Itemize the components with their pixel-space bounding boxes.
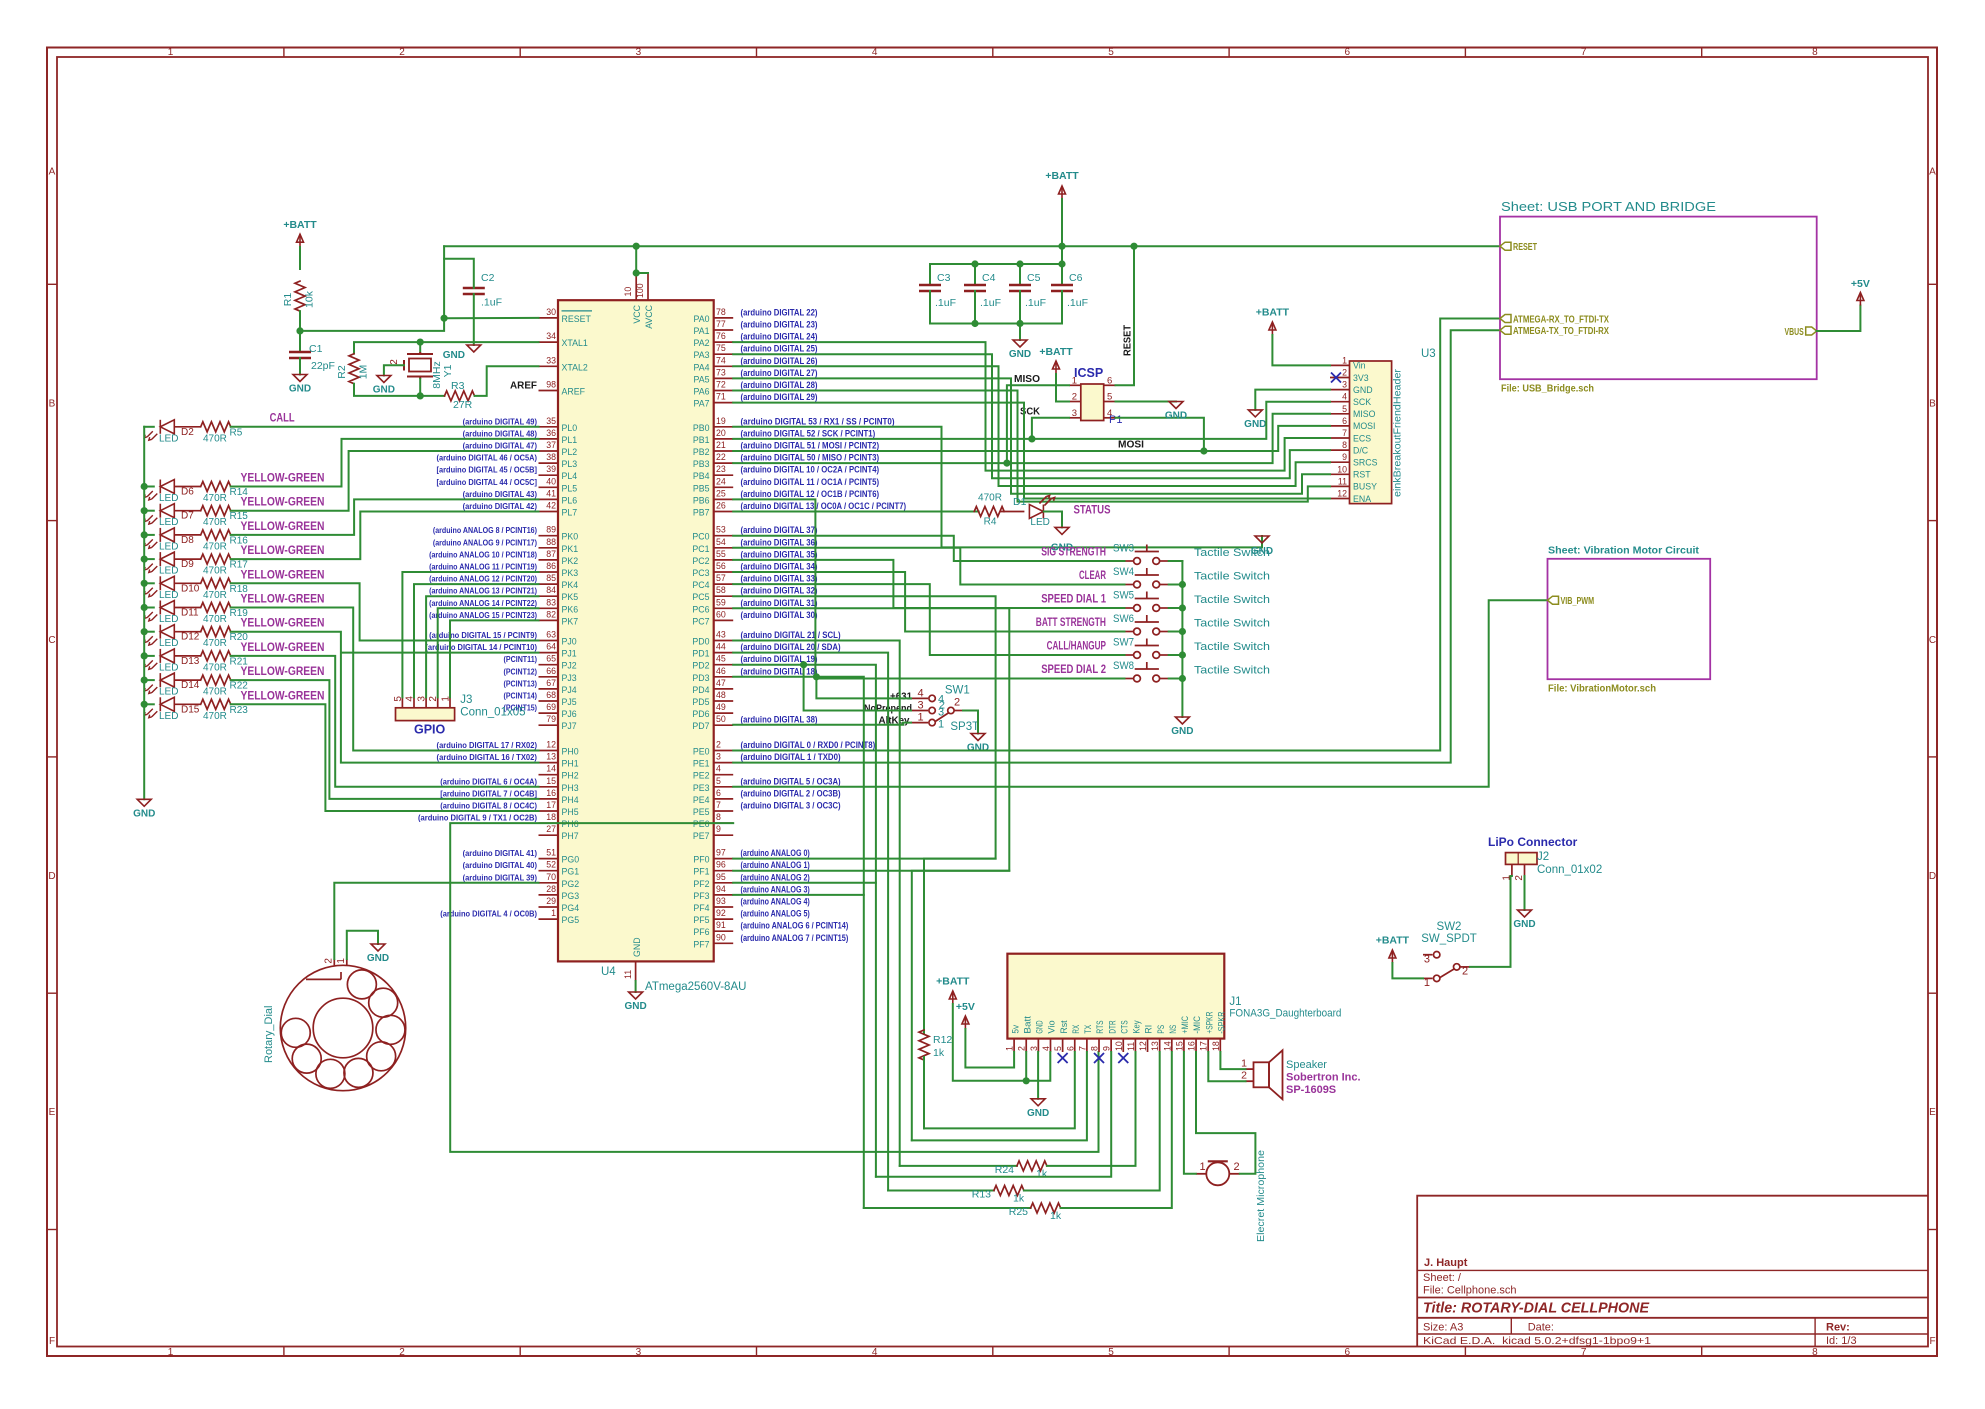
- svg-text:Vio: Vio: [1047, 1020, 1057, 1033]
- svg-text:D7: D7: [181, 511, 194, 522]
- svg-text:F: F: [49, 1336, 55, 1347]
- wire switch gnd collector: [1181, 561, 1183, 717]
- U4 pin 37 (PL2) left: [539, 450, 559, 452]
- svg-text:90: 90: [716, 932, 726, 942]
- svg-text:2: 2: [1072, 392, 1077, 403]
- svg-text:+BATT: +BATT: [283, 219, 317, 231]
- wire R12 to FONA RX row: [923, 1057, 925, 1128]
- svg-text:5: 5: [716, 776, 721, 786]
- svg-text:KiCad E.D.A. kicad 5.0.2+dfsg: KiCad E.D.A. kicad 5.0.2+dfsg1-1bpo9+1: [1423, 1335, 1651, 1347]
- svg-text:7: 7: [1342, 428, 1347, 438]
- U4 pin 2 (PE0) right: [714, 750, 734, 752]
- svg-text:(arduino DIGITAL 30): (arduino DIGITAL 30): [741, 610, 818, 620]
- border tick left: [47, 520, 57, 522]
- border tick right: [1928, 1229, 1937, 1231]
- svg-text:SP-1609S: SP-1609S: [1286, 1084, 1336, 1096]
- connector J2 body: [1506, 853, 1538, 865]
- svg-text:30: 30: [546, 307, 556, 317]
- svg-text:FONA3G_Daughterboard: FONA3G_Daughterboard: [1229, 1008, 1341, 1020]
- svg-text:Tactile Switch: Tactile Switch: [1194, 571, 1270, 583]
- svg-text:(arduino ANALOG 15 / PCINT23): (arduino ANALOG 15 / PCINT23): [429, 610, 537, 620]
- border tick bottom: [283, 1347, 285, 1357]
- sheet pin VBUS: [1806, 327, 1817, 335]
- U3 pin 6 stub: [1330, 425, 1350, 427]
- svg-text:PB0: PB0: [693, 423, 710, 433]
- svg-text:R23: R23: [230, 705, 249, 716]
- U4 pin 43 (PD0) right: [714, 640, 734, 642]
- wire +BATT to Batt pin: [953, 1004, 1026, 1081]
- border tick top: [1464, 48, 1466, 58]
- svg-text:PE7: PE7: [693, 831, 710, 841]
- svg-text:Date:: Date:: [1528, 1322, 1554, 1334]
- svg-text:PD4: PD4: [692, 685, 709, 695]
- J1 pin 8 stub: [1098, 1039, 1100, 1052]
- svg-text:4: 4: [716, 764, 721, 774]
- svg-text:1: 1: [1241, 1058, 1247, 1070]
- U4 pin 64 (PJ1) left: [539, 652, 559, 654]
- svg-text:ICSP: ICSP: [1074, 366, 1103, 380]
- switch SW8: [1125, 662, 1169, 682]
- U4 pin 41 (PL6) left: [539, 498, 559, 500]
- svg-text:33: 33: [546, 355, 556, 365]
- svg-text:PA2: PA2: [694, 338, 710, 348]
- svg-text:13: 13: [1150, 1041, 1160, 1051]
- LED D6: [144, 480, 174, 500]
- svg-text:YELLOW-GREEN: YELLOW-GREEN: [241, 666, 325, 678]
- svg-text:Tactile Switch: Tactile Switch: [1194, 594, 1270, 606]
- wire crystal bottom to R3 row: [419, 379, 421, 396]
- wire D14 to PH4: [231, 680, 539, 799]
- U4 pin 36 (PL1) left: [539, 438, 559, 440]
- U4 pin 55 (PC2) right: [714, 559, 734, 561]
- wire crystal top lead: [419, 342, 421, 352]
- wire reset to U4 pin30: [444, 317, 538, 319]
- svg-text:470R: 470R: [203, 638, 227, 649]
- svg-text:3: 3: [1029, 1046, 1039, 1051]
- P1 pin 4 stub right: [1104, 417, 1116, 419]
- svg-text:U3: U3: [1421, 348, 1436, 360]
- U4 pin 88 (PK1) left: [539, 547, 559, 549]
- junction collector node: [1179, 605, 1185, 611]
- svg-text:-MIC: -MIC: [1192, 1015, 1202, 1033]
- resistor R23: [201, 699, 231, 709]
- svg-text:57: 57: [716, 573, 726, 583]
- wire cap 3 top stub: [929, 264, 931, 285]
- resistor R1: [295, 281, 305, 311]
- svg-text:10: 10: [1337, 464, 1347, 474]
- U4 pin 69 (PJ6) left: [539, 712, 559, 714]
- title block divider rev: [1814, 1318, 1816, 1347]
- svg-text:89: 89: [546, 525, 556, 535]
- U4 pin 97 (PF0) right: [714, 858, 734, 860]
- svg-text:(arduino DIGITAL 17 / RX02): (arduino DIGITAL 17 / RX02): [437, 740, 538, 750]
- U4 pin 1 (PG5) left: [539, 918, 559, 920]
- svg-text:(arduino DIGITAL 23): (arduino DIGITAL 23): [741, 320, 818, 330]
- svg-text:RI: RI: [1144, 1025, 1154, 1034]
- svg-text:7: 7: [716, 800, 721, 810]
- U4 pin 52 (PG1) left: [539, 870, 559, 872]
- svg-text:PH1: PH1: [562, 759, 579, 769]
- ground symbol SW1: [971, 734, 985, 741]
- svg-text:PC2: PC2: [692, 556, 709, 566]
- wire cap C3 bottom stub: [929, 291, 931, 324]
- svg-text:470R: 470R: [203, 433, 227, 444]
- svg-text:PC4: PC4: [692, 580, 709, 590]
- U4 pin 67 (PJ4) left: [539, 688, 559, 690]
- wire LED-R D2: [174, 426, 200, 428]
- U4 pin 26 (PB7) right: [714, 511, 734, 513]
- U4 pin 34 (XTAL1) left: [539, 341, 559, 343]
- svg-text:3: 3: [716, 752, 721, 762]
- U3 pin 10 stub: [1330, 473, 1350, 475]
- wire LED rail stub D6: [144, 486, 154, 488]
- svg-text:CLEAR: CLEAR: [1079, 570, 1106, 582]
- wire SW6 to collector: [1169, 631, 1183, 633]
- svg-text:PH4: PH4: [562, 795, 579, 805]
- junction RESET net at +BATT: [1059, 243, 1065, 249]
- wire PD2 feed cont: [804, 665, 876, 1177]
- svg-text:SCK: SCK: [1353, 397, 1371, 407]
- svg-text:470R: 470R: [203, 590, 227, 601]
- svg-text:PE3: PE3: [693, 783, 710, 793]
- svg-text:40: 40: [546, 476, 556, 486]
- svg-text:MOSI: MOSI: [1118, 438, 1144, 450]
- title block line4: [1417, 1333, 1928, 1335]
- svg-text:C6: C6: [1069, 272, 1083, 284]
- wire LED-R D9: [174, 558, 200, 560]
- U3 pin 7 stub: [1330, 437, 1350, 439]
- svg-text:SW6: SW6: [1113, 613, 1134, 625]
- border tick left: [47, 756, 57, 758]
- LED D7: [144, 504, 174, 524]
- svg-text:LED: LED: [159, 493, 178, 504]
- svg-text:PE1: PE1: [693, 759, 710, 769]
- wire VCC feed: [635, 246, 637, 273]
- wire Batt to Vio: [1026, 1052, 1050, 1081]
- svg-text:YELLOW-GREEN: YELLOW-GREEN: [241, 473, 325, 485]
- svg-text:ECS: ECS: [1353, 433, 1371, 443]
- svg-text:96: 96: [716, 860, 726, 870]
- junction rail node: [141, 629, 147, 635]
- U4 pin 25 (PB6) right: [714, 498, 734, 500]
- svg-text:Sobertron Inc.: Sobertron Inc.: [1286, 1072, 1361, 1084]
- ground symbol LED rail: [137, 799, 151, 806]
- svg-text:(arduino ANALOG 1): (arduino ANALOG 1): [741, 860, 810, 870]
- svg-text:+BATT: +BATT: [936, 976, 970, 988]
- svg-text:75: 75: [716, 343, 726, 353]
- svg-text:LED: LED: [159, 638, 178, 649]
- svg-text:Conn_01x05: Conn_01x05: [460, 707, 525, 719]
- svg-text:XTAL2: XTAL2: [562, 362, 588, 372]
- svg-text:PL2: PL2: [562, 447, 578, 457]
- svg-text:LED: LED: [159, 433, 178, 444]
- svg-text:3: 3: [636, 47, 642, 58]
- svg-text:(arduino DIGITAL 25): (arduino DIGITAL 25): [741, 344, 818, 354]
- U4 pin 66 (PJ3) left: [539, 676, 559, 678]
- svg-text:79: 79: [546, 714, 556, 724]
- power +BATT (ICSP): [1053, 361, 1060, 374]
- svg-text:ATMEGA-RX_TO_FTDI-TX: ATMEGA-RX_TO_FTDI-TX: [1513, 314, 1609, 326]
- U4 pin 3 (PE1) right: [714, 762, 734, 764]
- resistor R13: [994, 1186, 1024, 1196]
- border tick left: [47, 992, 57, 994]
- J1 pin 15 stub: [1183, 1039, 1185, 1052]
- wire PK6 to J3 pin2: [438, 608, 539, 697]
- svg-text:47: 47: [716, 678, 726, 688]
- svg-text:(arduino ANALOG 12 / PCINT20): (arduino ANALOG 12 / PCINT20): [429, 574, 537, 584]
- power +BATT (U3): [1269, 322, 1276, 335]
- wire LED rail stub D9: [144, 558, 154, 560]
- capacitor C2: [463, 287, 485, 290]
- svg-text:STATUS: STATUS: [1074, 505, 1111, 517]
- svg-text:LED: LED: [1030, 517, 1049, 528]
- svg-text:(arduino DIGITAL 6 / OC4A): (arduino DIGITAL 6 / OC4A): [440, 776, 537, 786]
- svg-text:37: 37: [546, 440, 556, 450]
- svg-text:Elecret Microphone: Elecret Microphone: [1255, 1150, 1267, 1242]
- wire PE3 to VIB_PWM: [733, 600, 1547, 787]
- wire RESET net horizontal: [444, 245, 1500, 247]
- U4 pin 17 (PH5) left: [539, 810, 559, 812]
- wire +BATT to SW2 pin1: [1392, 963, 1423, 978]
- svg-text:GND: GND: [1244, 419, 1266, 430]
- svg-text:RX: RX: [1071, 1025, 1081, 1034]
- svg-text:(arduino DIGITAL 13 / OC0A / O: (arduino DIGITAL 13 / OC0A / OC1C / PCIN…: [741, 501, 907, 511]
- wire GND pin3 down: [1037, 1052, 1039, 1099]
- svg-text:R4: R4: [984, 517, 997, 528]
- svg-text:66: 66: [546, 666, 556, 676]
- svg-text:24: 24: [716, 476, 726, 486]
- svg-text:PC6: PC6: [692, 604, 709, 614]
- svg-text:Size: A3: Size: A3: [1423, 1322, 1463, 1334]
- svg-text:(arduino ANALOG 14 / PCINT22): (arduino ANALOG 14 / PCINT22): [429, 598, 537, 608]
- svg-text:PH2: PH2: [562, 771, 579, 781]
- svg-text:(arduino DIGITAL 0 / RXD0 / PC: (arduino DIGITAL 0 / RXD0 / PCINT8): [741, 740, 876, 750]
- U3 pin 4 stub: [1330, 401, 1350, 403]
- svg-text:64: 64: [546, 642, 556, 652]
- resistor R4: [974, 507, 1004, 517]
- J3 pin 3 stub: [425, 697, 427, 707]
- svg-text:+BATT: +BATT: [1045, 170, 1079, 182]
- svg-text:(arduino DIGITAL 42): (arduino DIGITAL 42): [463, 501, 538, 511]
- U4 pin 68 (PJ5) left: [539, 700, 559, 702]
- U4 pin 90 (PF7) right: [714, 942, 734, 944]
- wire +SPKR pin17 to speaker2: [1208, 1052, 1245, 1081]
- wire FONA RX pin6: [924, 1052, 1075, 1128]
- wire +BATT to U3 Vin: [1272, 335, 1330, 365]
- wire LED rail stub D11: [144, 607, 154, 609]
- U4 pin 63 (PJ0) left: [539, 640, 559, 642]
- wire dial pin2 to PG2: [334, 883, 538, 959]
- svg-text:PH5: PH5: [562, 807, 579, 817]
- svg-text:MISO: MISO: [1014, 373, 1040, 385]
- U4 pin 45 (PD2) right: [714, 664, 734, 666]
- U4 pin 77 (PA1) right: [714, 329, 734, 331]
- U4 pin 7 (PE5) right: [714, 810, 734, 812]
- svg-text:R24: R24: [995, 1164, 1014, 1176]
- speaker LS1 symbol: [1246, 1050, 1283, 1099]
- svg-text:18: 18: [546, 812, 556, 822]
- svg-text:13: 13: [546, 752, 556, 762]
- U4 pin 21 (PB2) right: [714, 450, 734, 452]
- svg-text:C: C: [48, 635, 55, 646]
- junction RESET net at ICSP vert: [1131, 243, 1137, 249]
- svg-text:PL1: PL1: [562, 435, 578, 445]
- svg-text:1: 1: [1005, 1046, 1015, 1051]
- wire R25 to NS pin14: [1061, 1052, 1172, 1208]
- svg-text:5: 5: [1108, 47, 1114, 58]
- svg-text:2: 2: [399, 47, 405, 58]
- wire PC0 to SW3: [733, 536, 1124, 561]
- capacitor C6: [1051, 284, 1073, 287]
- svg-text:PE2: PE2: [693, 771, 710, 781]
- svg-text:(arduino DIGITAL 53 / RX1 / SS: (arduino DIGITAL 53 / RX1 / SS / PCINT0): [741, 416, 895, 426]
- svg-text:PL5: PL5: [562, 483, 578, 493]
- wire PJ1 stub wire: [342, 652, 538, 654]
- svg-text:(arduino ANALOG 9 / PCINT17): (arduino ANALOG 9 / PCINT17): [433, 537, 537, 547]
- svg-text:U4: U4: [601, 966, 616, 978]
- svg-text:PG3: PG3: [562, 891, 580, 901]
- svg-text:+5V: +5V: [956, 1001, 975, 1013]
- junction PD2 branch: [801, 662, 807, 668]
- svg-text:7: 7: [1077, 1046, 1087, 1051]
- U4 pin 82 (PK7) left: [539, 619, 559, 621]
- svg-text:36: 36: [546, 428, 556, 438]
- svg-text:2: 2: [1017, 1046, 1027, 1051]
- svg-text:(PCINT14): (PCINT14): [504, 691, 538, 701]
- svg-text:91: 91: [716, 920, 726, 930]
- wire PC2 to SW5: [733, 560, 1124, 608]
- LED D14: [144, 673, 174, 693]
- junction rail node: [141, 677, 147, 683]
- junction collector node: [1179, 652, 1185, 658]
- border tick top: [1701, 48, 1703, 58]
- ground symbol Y1: [377, 376, 391, 383]
- crystal Y1: [404, 352, 433, 379]
- U4 pin 100 (AVCC) stub: [647, 273, 649, 300]
- wire cap C4 bottom stub: [974, 291, 976, 324]
- wire PE0 to USB RX: [733, 319, 1500, 751]
- svg-text:15: 15: [1174, 1041, 1184, 1051]
- U3 pin 5 stub: [1330, 413, 1350, 415]
- svg-text:PA3: PA3: [694, 350, 710, 360]
- U4 pin 84 (PK5) left: [539, 595, 559, 597]
- svg-text:PL0: PL0: [562, 423, 578, 433]
- svg-text:PA7: PA7: [694, 399, 710, 409]
- U4 pin 85 (PK4) left: [539, 583, 559, 585]
- svg-text:einkBreakoutFriendHeader: einkBreakoutFriendHeader: [1392, 368, 1404, 497]
- svg-text:PD1: PD1: [692, 649, 709, 659]
- svg-text:File: USB_Bridge.sch: File: USB_Bridge.sch: [1501, 384, 1594, 395]
- svg-text:4: 4: [1342, 392, 1347, 402]
- svg-text:67: 67: [546, 678, 556, 688]
- resistor R17: [201, 554, 231, 564]
- svg-text:1: 1: [551, 908, 556, 918]
- wire R3 to XTAL2: [475, 366, 539, 396]
- P1 pin 6 stub right: [1104, 384, 1116, 386]
- wire SW2 pin2 to J2 pin1: [1470, 876, 1512, 967]
- svg-text:(arduino DIGITAL 5 / OC3A): (arduino DIGITAL 5 / OC3A): [741, 776, 841, 786]
- svg-text:SPEED DIAL 2: SPEED DIAL 2: [1041, 664, 1106, 676]
- junction rail node: [141, 580, 147, 586]
- svg-text:B: B: [49, 399, 56, 410]
- svg-text:YELLOW-GREEN: YELLOW-GREEN: [241, 545, 325, 557]
- svg-text:GND: GND: [373, 385, 395, 396]
- border tick bottom: [519, 1347, 521, 1357]
- svg-text:(arduino DIGITAL 40): (arduino DIGITAL 40): [463, 860, 538, 870]
- svg-text:1: 1: [168, 47, 174, 58]
- U4 pin 74 (PA4) right: [714, 365, 734, 367]
- svg-text:470R: 470R: [203, 493, 227, 504]
- wire +BATT to ICSP pin2: [1056, 374, 1069, 402]
- svg-text:[arduino DIGITAL 44 / OC5C]: [arduino DIGITAL 44 / OC5C]: [437, 477, 538, 487]
- svg-text:(arduino DIGITAL 1 / TXD0): (arduino DIGITAL 1 / TXD0): [741, 752, 841, 762]
- border tick bottom: [992, 1347, 994, 1357]
- svg-text:12: 12: [1138, 1041, 1148, 1051]
- U4 pin 93 (PF4) right: [714, 906, 734, 908]
- svg-text:39: 39: [546, 464, 556, 474]
- U4 pin 12 (PH0) left: [539, 750, 559, 752]
- svg-text:PB7: PB7: [693, 508, 710, 518]
- sheet VibrationMotor box: [1548, 559, 1711, 679]
- svg-text:J. Haupt: J. Haupt: [1424, 1257, 1468, 1269]
- junction XTAL1 node: [417, 339, 423, 345]
- svg-text:SP3T: SP3T: [950, 721, 979, 733]
- wire LED rail stub D7: [144, 510, 154, 512]
- svg-text:470R: 470R: [203, 541, 227, 552]
- svg-text:PA1: PA1: [694, 326, 710, 336]
- svg-text:(PCINT12): (PCINT12): [504, 666, 538, 676]
- wire PD1 feed: [733, 653, 888, 1191]
- U4 pin 20 (PB1) right: [714, 438, 734, 440]
- resistor R5: [201, 422, 231, 432]
- svg-text:53: 53: [716, 525, 726, 535]
- ground symbol caps: [1013, 340, 1027, 347]
- svg-text:CTS: CTS: [1119, 1020, 1129, 1033]
- U4 pin 86 (PK3) left: [539, 571, 559, 573]
- svg-text:(arduino DIGITAL 4 / OC0B): (arduino DIGITAL 4 / OC0B): [440, 909, 537, 919]
- wire +BATT to R1: [299, 247, 301, 269]
- svg-text:(arduino DIGITAL 50 / MISO / P: (arduino DIGITAL 50 / MISO / PCINT3): [741, 453, 880, 463]
- svg-text:22: 22: [716, 452, 726, 462]
- svg-text:38: 38: [546, 452, 556, 462]
- wire LED-R D13: [174, 655, 200, 657]
- power +BATT (SW2): [1389, 950, 1396, 963]
- power +BATT (caps): [1059, 186, 1066, 199]
- U4 pin 5 (PE3) right: [714, 786, 734, 788]
- svg-text:PK5: PK5: [562, 592, 579, 602]
- svg-text:1: 1: [336, 958, 347, 964]
- wire R13 left: [888, 1190, 994, 1192]
- svg-text:4: 4: [917, 687, 923, 699]
- wire jog to V911: [912, 871, 1010, 1141]
- svg-text:4: 4: [872, 47, 878, 58]
- U4 pin 96 (PF1) right: [714, 870, 734, 872]
- border tick bottom: [1228, 1347, 1230, 1357]
- svg-text:42: 42: [546, 501, 556, 511]
- svg-text:5: 5: [1108, 1347, 1114, 1358]
- svg-text:C5: C5: [1027, 272, 1041, 284]
- U4 pin 47 (PD4) right: [714, 688, 734, 690]
- wire PD3 horizontal: [733, 676, 816, 678]
- svg-text:GND: GND: [1513, 919, 1535, 930]
- svg-text:43: 43: [716, 630, 726, 640]
- J2 pin2 stub: [1524, 864, 1526, 876]
- svg-text:(arduino DIGITAL 22): (arduino DIGITAL 22): [741, 307, 818, 317]
- U3 pin 9 stub: [1330, 461, 1350, 463]
- wire ICSP pin5 to GND: [1116, 401, 1177, 403]
- svg-text:16: 16: [1187, 1041, 1197, 1051]
- svg-text:C: C: [1929, 635, 1936, 646]
